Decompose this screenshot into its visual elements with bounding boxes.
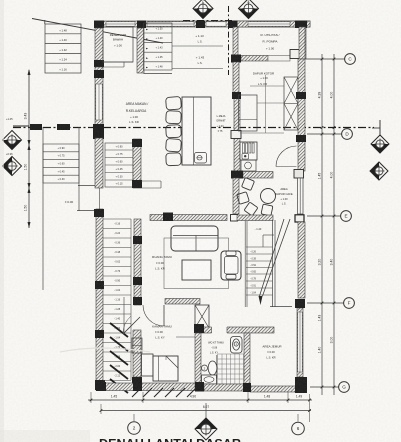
ramp bold hatch strokes	[110, 323, 128, 393]
grid bubble D	[342, 129, 353, 140]
left wall upper section	[95, 67, 103, 125]
reservoir step sill	[103, 61, 133, 63]
wc/jemur separator wall	[244, 333, 250, 390]
staircase	[244, 221, 246, 307]
cafe left wall	[233, 178, 239, 214]
grid bubble 2 (bottom)	[133, 414, 135, 421]
stove	[240, 142, 257, 160]
entry step lines	[78, 185, 99, 187]
dimension ticks right	[321, 58, 324, 61]
hatch strokes below wall	[132, 388, 196, 397]
axis marker left lower	[3, 157, 22, 176]
entry jamb line	[99, 188, 101, 209]
armchair	[221, 251, 241, 280]
left wall at mid steps	[95, 138, 103, 188]
axis marker right lower	[370, 162, 388, 180]
cafe chairs	[241, 177, 254, 190]
grid bubble E	[341, 211, 352, 222]
bottom wall wc	[204, 384, 244, 391]
bottom dimension line 2	[101, 410, 311, 412]
stair direction arrow	[260, 219, 285, 296]
grid line D connector	[307, 133, 342, 135]
kitchen counter	[239, 95, 258, 131]
wc left wall	[195, 333, 201, 390]
R.utilitas bottom wall	[241, 56, 268, 62]
wall shelf	[132, 338, 142, 353]
corridor edge line	[123, 297, 125, 334]
table sink fixture	[195, 153, 207, 164]
reservoir room left wall	[95, 28, 103, 67]
dining chairs	[166, 96, 182, 110]
ramp diagonal line	[32, 19, 163, 44]
reservoir room outline	[103, 27, 133, 62]
outside mid steps	[43, 144, 79, 183]
left wall gate column	[93, 124, 104, 139]
living room top wall	[150, 215, 227, 221]
outside entrance steps (top-left)	[45, 24, 81, 73]
rug outline	[164, 238, 229, 289]
axis marker right upper	[372, 127, 380, 129]
axis marker C (top)	[193, 0, 213, 19]
R.utilitas right wall	[300, 27, 306, 59]
right dimension line 2	[333, 54, 335, 395]
right wall cafe section (window)	[298, 178, 304, 214]
top exterior wall	[95, 21, 310, 27]
grid line E connector	[307, 215, 341, 217]
bottom dimension line 1	[88, 399, 312, 401]
right dimension line 1	[321, 54, 323, 395]
pantry step lines	[250, 85, 284, 87]
inside mid steps	[105, 143, 133, 187]
sofa	[171, 226, 218, 251]
corridor door leaf	[123, 317, 140, 334]
kamar tamu top wall	[165, 299, 200, 305]
kitchen left wall	[233, 62, 239, 97]
grid line C connector	[306, 58, 345, 60]
grid line G connector	[310, 386, 339, 388]
grid line F connector	[307, 302, 344, 304]
wall to stairs	[237, 215, 273, 221]
toilet 1	[231, 337, 243, 354]
landing bands	[172, 45, 223, 47]
north arrow bottom	[205, 403, 207, 418]
kamar tamu door	[163, 305, 165, 326]
top wall windows	[106, 22, 135, 26]
tiles floor	[218, 354, 244, 384]
stair-up lattice	[284, 77, 298, 130]
grid centre-line (top horizontal dash-dot)	[183, 20, 233, 22]
bed	[153, 356, 178, 381]
axis marker A (top)	[239, 0, 259, 19]
toilet 2	[208, 361, 217, 375]
bottom wall kamar tamu	[104, 383, 195, 391]
inner steps left wall	[137, 28, 144, 73]
bottom dim extension lines	[90, 392, 92, 403]
grid bubble 6	[292, 422, 305, 435]
wc top wall	[199, 327, 274, 333]
top wall columns	[94, 21, 104, 29]
grid centre-line D (horizontal dash-dot)	[13, 127, 374, 129]
kitchen sink	[241, 160, 256, 171]
drive court edge lines	[42, 127, 44, 290]
bottom wall area jemur	[250, 386, 296, 392]
kitchen door swing	[276, 146, 297, 167]
shelf ledge	[141, 180, 161, 182]
toilet2 niche line	[216, 355, 218, 379]
cafe table	[261, 189, 276, 204]
left wall lower section	[96, 209, 103, 390]
inner long wall	[134, 219, 141, 305]
inner steps treads	[144, 23, 173, 70]
wall kitchen/cafe separator	[243, 172, 273, 179]
right wall along stairs	[298, 222, 305, 298]
dresser	[142, 354, 154, 376]
faint scan smudges	[60, 348, 150, 352]
grid line vertical dashed x=228	[228, 6, 230, 75]
grid bubble 2	[128, 422, 141, 435]
fence posts on grid D	[30, 124, 42, 130]
dining table	[182, 97, 211, 165]
wash basin	[202, 375, 217, 384]
long garage ramp steps	[103, 219, 131, 381]
top wall R.utilitas part	[233, 21, 310, 27]
shaft with X	[195, 305, 209, 328]
grid bubble F	[344, 298, 355, 309]
coffee table	[182, 260, 211, 280]
left dimension line	[28, 70, 30, 228]
left wall window	[96, 84, 102, 120]
grid bubble C	[345, 54, 356, 65]
stair landing	[263, 234, 274, 236]
wall column mid steps right	[133, 139, 141, 188]
axis marker left upper	[13, 125, 29, 127]
grid bubble 6 (bottom)	[297, 414, 299, 422]
right wall lower	[297, 308, 303, 377]
R.utilitas left wall	[233, 27, 238, 59]
grid bubble G	[339, 382, 350, 393]
right wall segments	[299, 27, 305, 59]
